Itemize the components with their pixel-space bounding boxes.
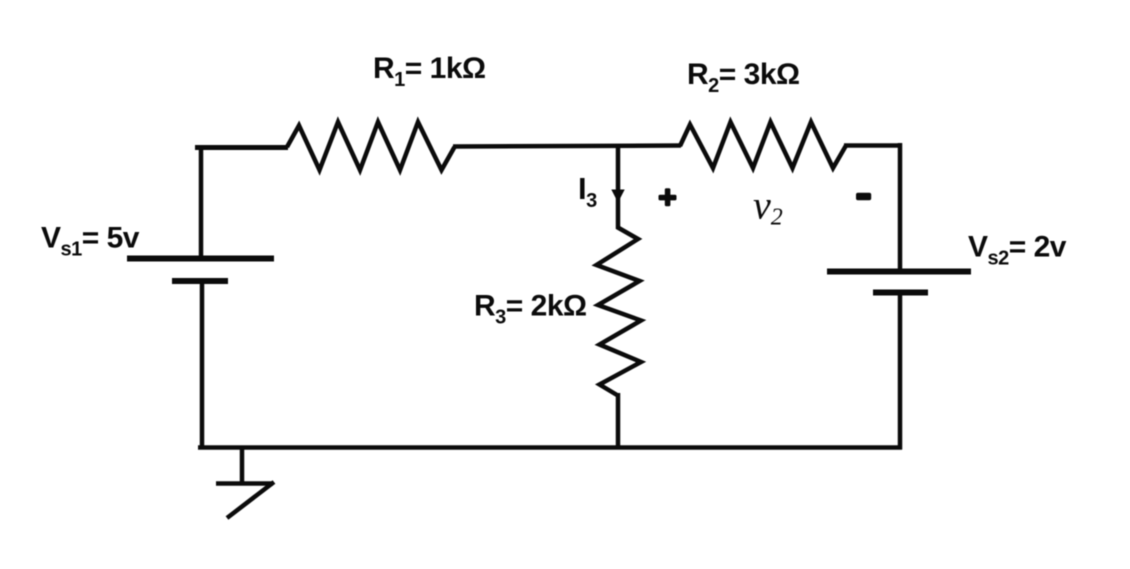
wire R3 bottom to bottom rail — [616, 393, 621, 450]
battery Vs2 — [827, 272, 971, 293]
battery Vs1 long plate (+) — [127, 256, 274, 262]
wire bottom rail — [198, 445, 902, 450]
ground — [216, 448, 274, 518]
wire right vertical lower (Vs2 + terminal to bottom rail) — [898, 292, 903, 450]
battery Vs2 short plate (-) — [873, 290, 928, 296]
wire left vertical upper (Vs1 + terminal to top rail) — [199, 149, 204, 259]
battery Vs1 short plate (-) — [172, 278, 228, 284]
resistor R1 — [287, 122, 455, 170]
polarity plus sign of v2 — [659, 188, 677, 206]
resistor R3 — [597, 227, 642, 395]
battery Vs2 long plate (+) — [827, 269, 971, 275]
wire R1 to R2 through node A — [453, 146, 681, 147]
wire top-left horizontal — [195, 145, 288, 150]
arrowhead of current I3 — [611, 190, 624, 203]
battery Vs1 — [127, 259, 274, 282]
wire right vertical upper (corner to Vs2 - terminal) — [898, 143, 903, 272]
polarity minus sign of v2 — [856, 193, 871, 200]
wire node A down to R3 (I3 branch) — [616, 146, 621, 229]
wire left vertical lower (Vs1 - terminal to bottom rail) — [200, 281, 205, 450]
wire R2 to top-right corner — [844, 143, 902, 148]
resistor R2 — [680, 122, 846, 168]
